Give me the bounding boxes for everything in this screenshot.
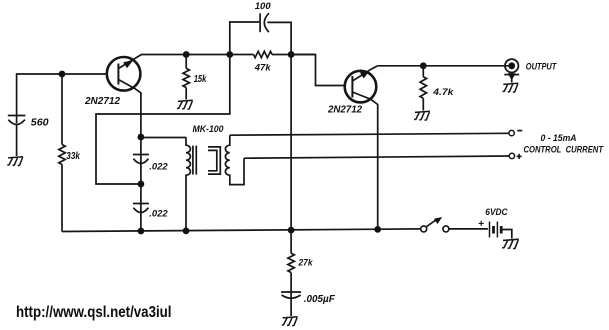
svg-text:47k: 47k [254,62,271,73]
svg-text:0 - 15mA: 0 - 15mA [541,133,577,143]
svg-text:MK-100: MK-100 [193,124,224,134]
svg-text:33k: 33k [66,151,80,162]
svg-text:2N2712: 2N2712 [327,104,362,116]
svg-text:http://www.qsl.net/va3iul: http://www.qsl.net/va3iul [16,304,172,321]
svg-text:.022: .022 [149,162,168,173]
svg-text:OUTPUT: OUTPUT [526,61,558,71]
svg-text:100: 100 [255,1,271,12]
svg-text:27k: 27k [298,258,313,269]
svg-text:4.7k: 4.7k [432,86,454,97]
svg-text:15k: 15k [194,74,207,85]
svg-text:.005µF: .005µF [304,294,336,305]
svg-text:6VDC: 6VDC [485,207,508,218]
svg-text:+: + [478,219,484,230]
svg-text:2N2712: 2N2712 [84,95,120,107]
svg-text:.022: .022 [149,209,168,220]
svg-text:CONTROL CURRENT: CONTROL CURRENT [524,145,605,155]
svg-text:560: 560 [31,118,49,129]
